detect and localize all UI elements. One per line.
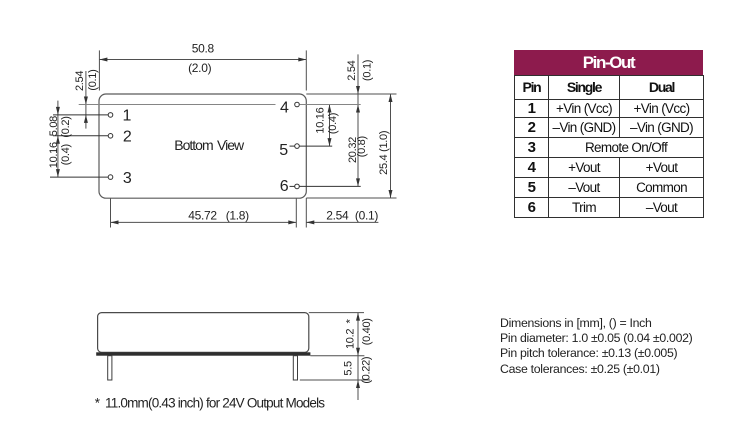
svg-text:(0.4): (0.4) [327, 113, 339, 134]
svg-text:6: 6 [280, 178, 289, 195]
svg-text:5: 5 [279, 142, 288, 159]
svg-text:2: 2 [123, 129, 132, 146]
svg-text:* 11.0mm(0.43 inch) for 24V O: * 11.0mm(0.43 inch) for 24V Output Model… [95, 396, 326, 411]
svg-text:(1.8): (1.8) [226, 209, 249, 223]
svg-text:5.08: 5.08 [48, 116, 60, 136]
svg-text:50.8: 50.8 [192, 41, 215, 55]
svg-text:1: 1 [122, 108, 131, 125]
svg-text:(0.40): (0.40) [361, 318, 373, 345]
svg-text:10.2 *: 10.2 * [345, 318, 357, 349]
svg-text:(0.1): (0.1) [87, 70, 99, 91]
svg-text:45.72: 45.72 [188, 209, 217, 223]
svg-text:(2.0): (2.0) [188, 61, 211, 75]
svg-text:(0.8): (0.8) [356, 136, 368, 157]
svg-text:25.4 (1.0): 25.4 (1.0) [378, 131, 390, 175]
svg-text:(0.22): (0.22) [360, 357, 372, 384]
svg-text:2.54: 2.54 [74, 71, 86, 91]
svg-text:10.16: 10.16 [315, 107, 327, 133]
svg-text:5.5: 5.5 [342, 361, 354, 376]
svg-text:4: 4 [280, 99, 289, 116]
svg-text:3: 3 [123, 170, 132, 187]
svg-text:Bottom View: Bottom View [174, 137, 245, 153]
svg-text:(0.1): (0.1) [355, 208, 378, 222]
svg-text:(0.1): (0.1) [362, 60, 374, 81]
svg-text:(0.4): (0.4) [60, 144, 72, 165]
svg-text:(0.2): (0.2) [60, 116, 72, 137]
svg-text:2.54: 2.54 [326, 208, 349, 222]
svg-text:2.54: 2.54 [346, 60, 358, 80]
svg-text:10.16: 10.16 [48, 142, 60, 168]
